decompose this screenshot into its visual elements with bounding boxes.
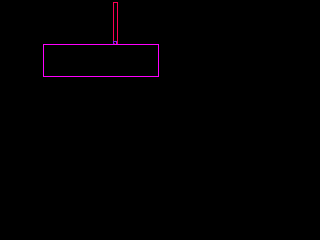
courtyard outline (magenta component body rectangle): [44, 45, 159, 77]
pad P1 lead (red narrow vertical rectangle, top copper layer): [114, 3, 118, 45]
pad P1 hole (violet square pin marker): [114, 42, 117, 45]
drill mark (dark red pixel inside pad hole): [114, 43, 115, 44]
